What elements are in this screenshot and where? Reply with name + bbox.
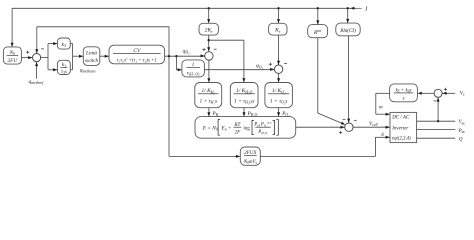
svg-text:qH₂: qH₂ (183, 48, 191, 54)
node label Pac (458, 129, 466, 134)
wire pO2 to E block (277, 108, 280, 117)
block H2 lag (195, 83, 222, 108)
node label Vs (460, 90, 465, 96)
svg-text:qmethane: qmethane (80, 67, 96, 73)
node label pH2 (212, 111, 221, 117)
node label qO2 (256, 63, 264, 69)
svg-text:2Kr: 2Kr (205, 28, 214, 34)
summing junction O2 (274, 65, 282, 73)
node I input arrow (350, 7, 354, 10)
block k3 proportional (57, 38, 70, 49)
wire H2 sum to H2 lag (207, 60, 210, 82)
node label delta (381, 132, 384, 138)
wire top feedback line I (12, 7, 361, 9)
wire pH2 to E block (207, 108, 210, 117)
block O2 lag (265, 83, 293, 108)
svg-text:Pac: Pac (458, 129, 466, 134)
wire qH2 down to 2FUX block (169, 56, 240, 158)
block k3/tau3s integral (57, 60, 70, 75)
wire pH2O to E block (243, 108, 246, 117)
node label pO2 (281, 111, 290, 117)
svg-text:CV: CV (133, 48, 141, 54)
block reformer CV (109, 45, 165, 64)
svg-text:switch: switch (85, 58, 99, 64)
node junction qH2 to rHO (175, 55, 177, 57)
wire Rint to V sum diagonal (318, 38, 346, 125)
node label pH2O (247, 111, 258, 117)
svg-text:1/ KH₂: 1/ KH₂ (201, 88, 215, 94)
node minus sign O2 sum top (284, 62, 287, 64)
summing junction V (345, 123, 353, 131)
wire CV output qH2 (165, 54, 205, 57)
svg-text:qO₂: qO₂ (256, 63, 264, 69)
node label Vac (459, 120, 466, 125)
wire 2FUX to delta input (260, 136, 390, 157)
svg-text:Inverter: Inverter (391, 127, 408, 132)
node plus sign O2 sum left (269, 63, 272, 66)
block 1/rHO (182, 60, 205, 77)
node plus sign Vs (444, 88, 447, 91)
node label qH2 (183, 48, 191, 54)
wire sum1 output split (41, 42, 58, 71)
wire PI merge to limit switch (70, 44, 83, 70)
block DC/AC inverter (390, 112, 417, 142)
node junction qH2 feedback (168, 55, 170, 57)
svg-text:E = N0: E = N0 (202, 125, 218, 131)
node minus sign V sum diag (343, 119, 346, 121)
summing junction sum1 (33, 54, 41, 62)
svg-text:Vac: Vac (459, 120, 466, 125)
svg-text:2FU: 2FU (8, 58, 19, 64)
svg-text:Kr: Kr (274, 28, 281, 34)
svg-text:1 + τH₂s: 1 + τH₂s (199, 99, 217, 105)
wire Vcell to inverter (353, 126, 390, 129)
svg-text:Limit: Limit (85, 51, 98, 57)
block 2Kr (199, 23, 218, 35)
node I label (364, 6, 368, 13)
wire qH2 tap to rHO block (176, 56, 181, 71)
wire N0/2FU to sum1 (21, 56, 32, 59)
wire inverter out Vac (417, 120, 456, 122)
svg-text:1 + τO₂s: 1 + τO₂s (270, 99, 288, 105)
svg-text:1 + τH₂Os: 1 + τH₂Os (234, 99, 254, 105)
node label Q (459, 137, 463, 142)
wire qH2 feedback to sum1 top (35, 27, 169, 54)
block 2FUX/N0mVs (240, 147, 260, 165)
node plus sign H2 sum left (203, 48, 206, 51)
svg-text:qmethref: qmethref (29, 79, 45, 85)
svg-text:k3: k3 (62, 42, 67, 48)
wire O2 sum to O2 lag (277, 73, 280, 82)
node label Vcell (369, 121, 378, 127)
summing junction H2 (205, 52, 213, 60)
block N0/2FU (3, 47, 21, 64)
node minus sign V sum top (354, 119, 357, 121)
node label m (379, 105, 383, 110)
block limit switch (83, 47, 100, 66)
summing junction voltage reg (434, 89, 442, 97)
svg-text:eqt(2,3,4): eqt(2,3,4) (392, 137, 411, 142)
svg-text:1/ KH₂O: 1/ KH₂O (236, 88, 253, 94)
wire I to Kr (277, 7, 280, 23)
node plus sign sum1 left (26, 51, 29, 54)
svg-text:m: m (379, 105, 383, 110)
wire I to Rint (316, 7, 319, 25)
svg-text:Q: Q (459, 137, 463, 142)
node label qmethane (80, 67, 96, 73)
block Nernst voltage E (195, 117, 296, 139)
wire Vs input (442, 92, 455, 95)
wire Kr to O2 sum (277, 35, 280, 65)
svg-text:log: log (243, 126, 250, 131)
wire I to 2Kr (207, 7, 210, 23)
wire qmeth_ref input (35, 62, 38, 79)
wire I to Bln(CI) (346, 7, 349, 23)
node minus sign H2 sum top (214, 48, 217, 50)
svg-text:s: s (403, 97, 405, 102)
block Rint (308, 25, 328, 38)
wire inverter out Pac (417, 129, 456, 131)
wire inverter out Q (417, 137, 456, 139)
svg-text:N0mVs: N0mVs (243, 160, 258, 165)
block Kr (269, 23, 287, 35)
wire rHO to O2 sum (204, 68, 274, 71)
wire 2Kr to H2 sum and H2O branch (207, 35, 245, 82)
block H2O lag (230, 83, 258, 108)
svg-text:DC / AC: DC / AC (391, 116, 410, 121)
node minus sign Vac fb (434, 100, 437, 102)
node label qmeth_ref (29, 79, 45, 85)
svg-text:2F: 2F (235, 129, 242, 135)
svg-text:Eo +: Eo + (220, 125, 231, 131)
svg-text:1/ KO₂: 1/ KO₂ (272, 88, 286, 94)
wire E to V sum (296, 126, 345, 129)
wire Vac feedback up (437, 97, 440, 122)
wire Vsum to PI (418, 92, 435, 95)
wire Bln to V sum (347, 36, 350, 123)
wire I to N0/2FU block (11, 8, 14, 47)
block PI k5+k6s/s (390, 84, 418, 102)
svg-text:PH₂O: PH₂O (257, 130, 267, 135)
wire limit switch to CV (100, 55, 109, 58)
wire qH2 up-feedback riser (168, 27, 170, 56)
node plus sign V sum left (339, 131, 342, 134)
svg-text:τ3s: τ3s (61, 69, 67, 75)
block Bln(CI) (336, 23, 360, 36)
svg-text:Bln(CI): Bln(CI) (340, 27, 356, 34)
wire PI to m input (376, 93, 390, 115)
node minus sign sum1 top (41, 48, 44, 50)
